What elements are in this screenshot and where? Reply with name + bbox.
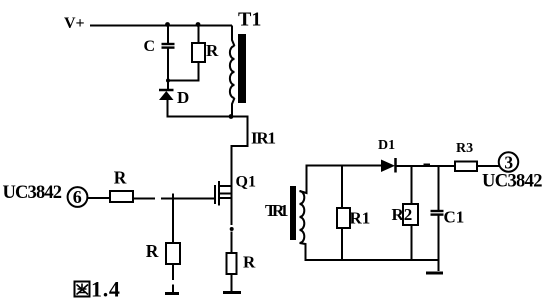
svg-text:C1: C1 [444, 208, 465, 227]
transformer TR1 core [290, 186, 296, 240]
svg-text:R1: R1 [350, 209, 371, 228]
wire C branch lower lead [167, 48, 169, 81]
resistor R2 label [392, 205, 413, 224]
wire from pin 6 to gate resistor [87, 197, 110, 199]
wire from D1 cathode to R3 [396, 165, 456, 166]
svg-text:3: 3 [504, 153, 513, 173]
pin 6 circle of UC3842 [68, 187, 88, 207]
wire R2 branch lower [411, 225, 413, 260]
svg-text:R: R [206, 41, 219, 60]
wire gate segment 2 [161, 198, 215, 200]
diode D1 label [378, 138, 395, 153]
wire secondary bottom rail [305, 259, 439, 261]
wire jog from primary bottom to Q1 drain [232, 117, 248, 187]
resistor R1 [337, 208, 350, 228]
resistor R (source) [227, 253, 237, 274]
svg-text:UC3842: UC3842 [3, 183, 63, 203]
wire ground stub right [438, 260, 440, 271]
wire bottom horizontal of snubber to primary bottom [167, 116, 233, 118]
wire below pulldown resistor [172, 264, 174, 293]
resistor R (snubber) [192, 43, 205, 62]
node junction tick at gate divider [172, 194, 174, 200]
svg-text:C: C [144, 38, 156, 55]
svg-text:R: R [146, 241, 159, 261]
svg-text:R3: R3 [456, 141, 473, 156]
svg-text:1.4: 1.4 [91, 277, 121, 302]
wire connector between C and R branches [167, 80, 200, 82]
node junction dot primary bottom [229, 114, 234, 119]
node IR1 label [251, 129, 276, 148]
capacitor C1 label [444, 208, 465, 227]
resistor R (gate) label [114, 168, 127, 188]
resistor R (source) label [243, 253, 256, 272]
wire R1 branch lower [341, 228, 343, 260]
resistor R (snubber) label [206, 41, 219, 60]
ground right [426, 272, 443, 275]
transistor Q1 MOSFET channel bar [218, 181, 220, 206]
wire TR1 top lead [300, 166, 307, 194]
figure label 图 glyph [75, 282, 90, 297]
wire C branch upper lead [167, 26, 169, 44]
svg-text:Q1: Q1 [236, 174, 256, 191]
resistor R (gate) [110, 191, 133, 202]
resistor R (gate pulldown) label [146, 241, 159, 261]
wire below source resistor [231, 274, 233, 291]
svg-text:D1: D1 [378, 138, 395, 153]
wire R3 to pin 3 [477, 165, 499, 167]
capacitor C value label [144, 38, 156, 55]
node V+ label [64, 15, 85, 32]
chip UC3842 label (left) [3, 183, 63, 203]
wire top rail from V+ to T1 primary top [90, 25, 232, 27]
svg-text:UC3842: UC3842 [482, 172, 543, 192]
transformer T1 primary winding [230, 46, 235, 98]
svg-text:R2: R2 [392, 205, 413, 224]
svg-text:IR1: IR1 [251, 129, 276, 148]
wire TR1 bottom lead [300, 243, 306, 260]
capacitor C1 [431, 211, 444, 215]
transformer T1 label [238, 9, 261, 31]
wire secondary top rail to diode [306, 165, 383, 167]
wire C1 branch upper [438, 166, 440, 210]
pin 3 circle of UC3842 [499, 152, 519, 172]
transformer TR1 label [265, 201, 289, 220]
transistor Q1 source stub [218, 197, 232, 199]
transistor Q1 body stub [218, 193, 232, 195]
resistor R3 [455, 162, 477, 172]
node junction dot above diode D [166, 79, 170, 83]
ground below pulldown resistor [165, 292, 179, 295]
wire R branch upper lead [198, 26, 200, 44]
svg-text:D: D [177, 88, 189, 107]
wire R branch lower lead [198, 62, 200, 81]
wire R1 branch upper [341, 166, 343, 209]
wire diode D anode lead [167, 100, 169, 118]
resistor R3 label [456, 141, 473, 156]
chip UC3842 label (right) [482, 172, 543, 192]
transistor Q1 drain stub [218, 185, 232, 187]
wire R2 branch upper [411, 166, 413, 204]
node junction dot at resistor R branch [196, 22, 201, 27]
figure label 1.4 [91, 277, 121, 302]
resistor R1 label [350, 209, 371, 228]
wire Q1 source down [230, 186, 234, 253]
svg-text:6: 6 [73, 187, 82, 207]
svg-text:TR1: TR1 [265, 201, 289, 220]
wire T1 primary bottom lead [232, 98, 235, 117]
transistor Q1 MOSFET gate bar [214, 185, 216, 204]
diode D label [177, 88, 189, 107]
node junction dot at capacitor C branch [165, 22, 170, 27]
wire C1 branch lower [438, 215, 440, 261]
diode D1 [381, 158, 396, 173]
resistor R (gate pulldown) [166, 243, 180, 264]
ground below source resistor [223, 291, 241, 294]
transformer TR1 secondary winding [300, 191, 305, 243]
transformer T1 core [238, 34, 246, 103]
diode D [159, 90, 174, 100]
resistor R2 [403, 204, 418, 225]
capacitor C [162, 44, 175, 48]
svg-text:T1: T1 [238, 9, 261, 31]
wire gate segment 1 [133, 198, 155, 200]
svg-text:V+: V+ [64, 15, 85, 32]
transistor Q1 label [236, 174, 256, 191]
svg-text:R: R [114, 168, 127, 188]
wire T1 primary top lead [232, 26, 235, 47]
wire diode D cathode lead [167, 81, 169, 90]
svg-text:R: R [243, 253, 256, 272]
wire from gate junction down to lower R [172, 199, 174, 244]
